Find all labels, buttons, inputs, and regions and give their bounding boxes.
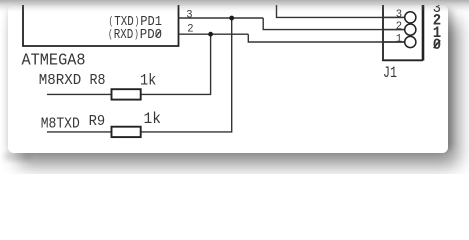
svg-text:PD0: PD0 — [140, 28, 162, 43]
wire M8RXD to R8 — [47, 93, 112, 95]
svg-text:RXD: RXD — [114, 28, 134, 43]
svg-text:2: 2 — [187, 23, 193, 35]
svg-text:): ) — [135, 16, 140, 28]
svg-text:R9: R9 — [89, 114, 106, 130]
resistor R8 body — [112, 89, 141, 99]
wire J1 pin1 stub — [383, 41, 405, 43]
svg-text:R8: R8 — [90, 73, 106, 89]
J1 pin pad circle 2 — [405, 24, 416, 35]
wire pin2 PD0 horizontal — [179, 33, 249, 35]
svg-text:1: 1 — [396, 34, 402, 46]
wire J1 pin2 stub — [383, 29, 405, 31]
svg-text:J1: J1 — [383, 64, 397, 82]
svg-text:0: 0 — [433, 36, 441, 54]
J1 pin pad circle 3 — [405, 12, 416, 23]
wire PD0 step down — [248, 34, 404, 42]
J1 pin pad circle 1 — [405, 36, 416, 47]
slash of zero in PD0 — [156, 30, 161, 37]
svg-text:M8RXD: M8RXD — [39, 73, 82, 89]
svg-text:M8TXD: M8TXD — [41, 117, 80, 133]
junction B on PD0/RXD net — [208, 32, 213, 37]
svg-text:2: 2 — [396, 21, 402, 33]
connector J1 body outline — [383, 0, 423, 60]
wire PD1 step down — [263, 18, 405, 30]
junction A on PD1/TXD net — [229, 16, 234, 21]
top inner shade — [0, 0, 469, 13]
resistor R9 body — [112, 127, 141, 137]
svg-text:(: ( — [109, 16, 114, 28]
svg-text:): ) — [134, 29, 139, 41]
wire R8 to junction on PD0 — [141, 34, 211, 94]
svg-text:(: ( — [108, 29, 113, 41]
IC U1 ATMEGA8 body outline — [23, 0, 179, 46]
wire R9 to junction on PD1 — [141, 18, 232, 132]
wire M8TXD to R9 — [47, 131, 112, 133]
wire pin3 PD1 horizontal — [179, 17, 264, 19]
svg-text:ATMEGA8: ATMEGA8 — [22, 51, 86, 70]
svg-text:1k: 1k — [144, 110, 162, 128]
wire J1 pin3 stub — [383, 16, 405, 18]
slash of net label zero — [434, 40, 441, 48]
wire from top to J1 pin 3 — [277, 0, 405, 17]
svg-text:1k: 1k — [140, 71, 156, 89]
